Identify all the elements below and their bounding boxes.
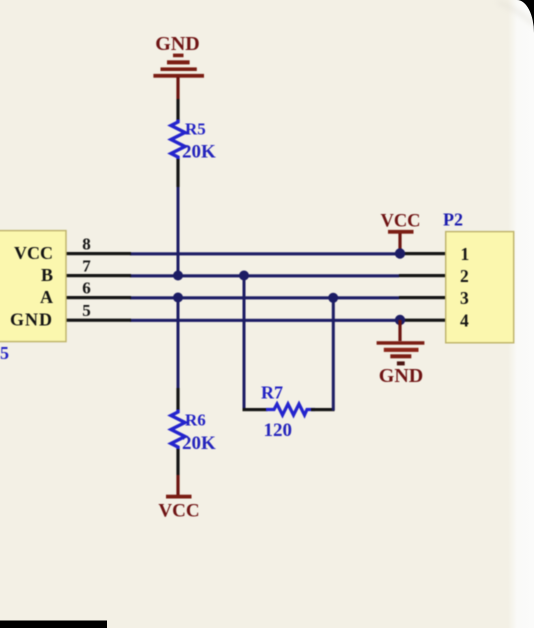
wire: line2 black pin stub right (P2 pin 2) [399, 274, 447, 277]
wire: R7 bottom right black [311, 408, 335, 411]
top-right corner shadow [498, 2, 534, 24]
svg-text:20K: 20K [182, 142, 216, 163]
wire: line3 black pin stub right (P2 pin 3) [399, 296, 447, 299]
wire: maroon stub from VCC bar down to line1 [398, 234, 401, 253]
svg-text:8: 8 [82, 235, 91, 254]
wire: navy segment from R5 down to B line [177, 187, 180, 277]
svg-text:20K: 20K [182, 433, 216, 454]
transparent strip artifact bottom-left (black) [0, 621, 107, 628]
svg-text:VCC: VCC [158, 501, 199, 522]
ground GND bottom-right symbol [377, 341, 425, 365]
svg-text:120: 120 [264, 420, 293, 441]
svg-text:VCC: VCC [380, 212, 420, 232]
svg-text:R7: R7 [261, 383, 283, 403]
connector body left (part cut at edge) [0, 231, 66, 342]
wire: line1 VCC net horizontal (navy) [130, 252, 400, 255]
node junction A-R6 [173, 293, 183, 303]
svg-text:VCC: VCC [14, 243, 53, 263]
svg-text:GND: GND [379, 365, 423, 387]
wire: line1 black pin stub right (P2 pin 1) [400, 252, 447, 255]
wire: line3 black pin stub left (pin 6) [65, 296, 131, 299]
wire: line4 black pin stub left (pin 5) [65, 319, 131, 322]
wire: black segment above R6 [176, 388, 179, 410]
node junction GND-line4 [395, 315, 405, 325]
power VCC bottom bar [166, 495, 192, 499]
node junction VCC-line1 [395, 248, 405, 258]
wire: maroon stub from top ground [176, 77, 179, 99]
svg-text:7: 7 [82, 257, 91, 276]
svg-text:GND: GND [155, 33, 199, 55]
wire: line1 black pin stub left (pin 8) [65, 252, 131, 255]
svg-text:5: 5 [82, 301, 91, 320]
resistor R7 (zigzag horizontal) [266, 404, 315, 415]
svg-text:3: 3 [460, 288, 469, 308]
wire: line2 black pin stub left (pin 7) [65, 274, 131, 277]
svg-text:GND: GND [10, 310, 53, 330]
svg-text:B: B [41, 265, 53, 285]
svg-text:2: 2 [460, 266, 469, 286]
wire: black segment below R6 [176, 449, 179, 475]
wire: line4 black pin stub right (P2 pin 4) [400, 319, 447, 322]
svg-text:P2: P2 [443, 210, 463, 230]
wire: R7 bottom left black [243, 408, 268, 411]
svg-text:5: 5 [0, 343, 9, 363]
svg-text:R5: R5 [185, 120, 206, 139]
svg-text:6: 6 [82, 279, 91, 298]
svg-text:R6: R6 [185, 411, 206, 430]
node junction R5-B [173, 271, 183, 281]
ground GND top symbol [153, 54, 204, 78]
wire: line4 GND net horizontal (navy) [130, 319, 400, 322]
node junction B-R7 [239, 271, 249, 281]
svg-text:A: A [40, 287, 53, 307]
svg-text:1: 1 [461, 244, 470, 264]
connector P2 body [446, 232, 514, 343]
power VCC top-right bar [388, 230, 414, 234]
wire: black segment above R5 [176, 99, 179, 121]
wire: black segment below R5 [176, 159, 179, 187]
transparent corner artifact top-right (black) [517, 0, 534, 33]
wire: maroon stub from line4 down to ground [398, 320, 401, 341]
svg-text:4: 4 [460, 311, 469, 331]
wire: maroon stub above VCC bottom bar [176, 475, 179, 495]
resistor R6 (zigzag) [171, 410, 185, 450]
wire: R7 right vertical (navy) [332, 298, 335, 411]
wire: line3 A net horizontal (navy) [130, 296, 399, 299]
wire: line2 B net horizontal (navy) [130, 274, 399, 277]
node junction A-R7 [328, 293, 338, 303]
wire: R7 left vertical (navy) [243, 276, 246, 410]
resistor R5 (zigzag) [171, 120, 185, 160]
wire: navy segment from A line down to R6 [177, 298, 180, 389]
